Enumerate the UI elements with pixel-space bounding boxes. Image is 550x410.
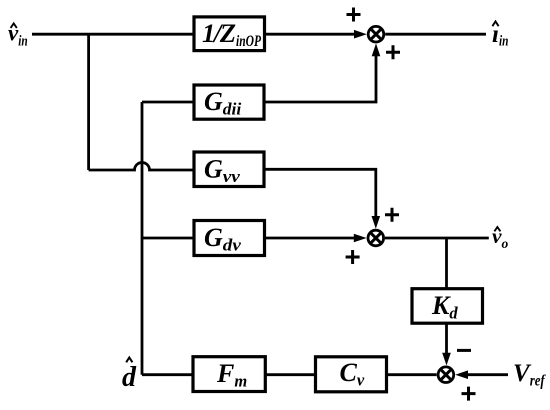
- sign plus below-right J3: [462, 387, 476, 401]
- svg-text:Vref: Vref: [513, 360, 546, 390]
- block Fm: [193, 357, 265, 392]
- sign plus below-left J2: [346, 250, 360, 264]
- label iin: [492, 21, 508, 50]
- svg-text:d: d: [122, 362, 137, 393]
- wire Gvv input with hop over d line: [89, 163, 194, 170]
- svg-text:vo: vo: [492, 224, 509, 251]
- wire Vref to J3: [466, 373, 508, 376]
- block Kd: [412, 289, 483, 324]
- wire Gvv output down to J2: [264, 169, 376, 218]
- label vo: [492, 224, 509, 251]
- block 1/ZinOP: [194, 17, 265, 51]
- wire Gdii input: [142, 101, 194, 104]
- svg-text:1/Z: 1/Z: [202, 18, 236, 48]
- block Gdv: [194, 221, 265, 256]
- wire vo branch down to Kd: [445, 238, 448, 289]
- sign plus above-right J2: [385, 208, 399, 222]
- svg-text:inOP: inOP: [236, 33, 261, 50]
- wire Gdv output to J2: [265, 237, 356, 240]
- block Gdii: [194, 85, 264, 119]
- sign minus above-right J3: [457, 349, 471, 352]
- arrowhead into J1 from left: [354, 30, 367, 39]
- wire vin horizontal: [32, 33, 194, 36]
- sign plus above J1: [347, 8, 361, 22]
- wire d-hat to Fm: [142, 373, 193, 376]
- arrowhead into J3 from above: [442, 353, 451, 366]
- wire Gdii output up to J1: [264, 56, 376, 102]
- arrowhead into J2 from left: [354, 234, 367, 243]
- block Gvv: [194, 152, 264, 187]
- svg-text:ıin: ıin: [492, 21, 508, 50]
- wire J1 output to iin: [385, 33, 486, 36]
- block Cv: [316, 357, 387, 392]
- label d-hat: [122, 358, 137, 394]
- arrowhead into J1 from below: [372, 43, 381, 56]
- wire J2 output to vo: [385, 237, 489, 240]
- wire ZinOP output to J1: [265, 33, 356, 36]
- summing junction J2: [368, 230, 384, 246]
- label Vref: [513, 360, 546, 390]
- sign plus below-right J1: [386, 45, 400, 59]
- summing junction J3: [438, 367, 454, 383]
- wire Kd output down to J3: [445, 323, 448, 354]
- summing junction J1: [368, 26, 384, 42]
- svg-text:vin: vin: [8, 21, 28, 50]
- wire Gdv input: [142, 237, 194, 240]
- wire Cv to Fm: [265, 373, 316, 376]
- arrowhead into J3 from right: [455, 370, 468, 379]
- wire d-hat vertical: [141, 102, 144, 375]
- wire vin branch down: [87, 34, 90, 170]
- wire J3 output to Cv: [387, 373, 437, 376]
- label vin: [8, 21, 28, 50]
- arrowhead into J2 from above: [372, 216, 381, 229]
